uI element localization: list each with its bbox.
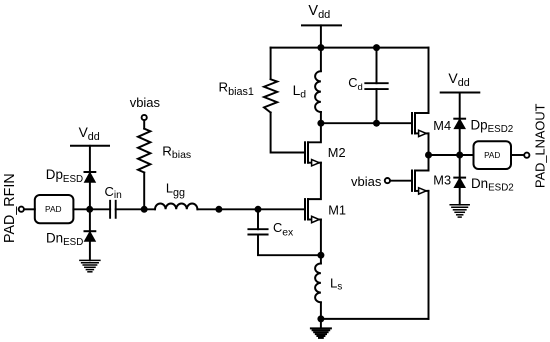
wire vbias to Rbias [143, 120, 145, 128]
power Vdd bar left [71, 145, 109, 147]
node D junction (Cex tap) [255, 206, 262, 213]
wire M4 drain to top rail [428, 48, 430, 113]
svg-text:DnESD2: DnESD2 [471, 176, 514, 193]
svg-text:Rbias: Rbias [162, 144, 191, 162]
node E junction [425, 152, 432, 159]
svg-text:Ld: Ld [293, 83, 307, 101]
inductor Ld [315, 71, 321, 112]
ground right [450, 205, 469, 217]
svg-text:Vdd: Vdd [448, 70, 469, 89]
node Ld bottom junction [317, 120, 324, 127]
svg-text:Cd: Cd [348, 75, 363, 93]
svg-text:vbias: vbias [351, 174, 382, 189]
svg-text:Rbias1: Rbias1 [219, 80, 254, 98]
wire M3 drain to node E [428, 155, 430, 171]
diode DpESD2 [454, 119, 465, 129]
wire Vdd to node A [89, 146, 91, 210]
ground left [80, 260, 100, 271]
capacitor C_in [110, 201, 116, 218]
wire M1 source down [320, 220, 322, 256]
svg-text:DnESD: DnESD [46, 231, 83, 249]
wire node D to Cex [257, 209, 259, 229]
node Cd top junction [373, 44, 380, 51]
wire M2 source to M1 drain [308, 163, 321, 199]
node Vdd junction [317, 44, 324, 51]
inductor Ls [315, 255, 321, 319]
diode DnESD2 [454, 178, 465, 188]
svg-text:Cin: Cin [105, 184, 122, 201]
resistor Rbias1 [264, 79, 277, 112]
wire Ls node to ground [320, 319, 322, 328]
diode DnESD [85, 231, 96, 241]
svg-text:DpESD: DpESD [46, 167, 83, 185]
node M1 source junction [317, 252, 324, 259]
node F junction [456, 152, 463, 159]
wire bottom rail [321, 318, 429, 320]
svg-text:DpESD2: DpESD2 [471, 118, 514, 136]
wire rail to Rbias1 [270, 48, 272, 79]
node PAD_LNAOUT terminal [524, 153, 529, 158]
capacitor Cex [248, 229, 267, 234]
node Cd bottom junction [373, 120, 380, 127]
wire node A to DnESD [89, 209, 91, 260]
power Vdd bar top [302, 24, 341, 26]
wire Vdd right to node F [459, 93, 461, 156]
node PAD_RFIN terminal [19, 207, 24, 212]
wire rail junction to M2 drain [308, 123, 321, 142]
wire M3 source down [428, 191, 430, 319]
wire Vdd top to rail [320, 25, 322, 47]
svg-text:M2: M2 [328, 145, 346, 160]
svg-text:PAD: PAD [45, 204, 62, 214]
wire node F to DnESD2 and ground [459, 155, 461, 205]
wire mid rail (to M4 gate) [321, 122, 412, 124]
svg-text:M3: M3 [433, 172, 451, 187]
svg-text:M4: M4 [433, 118, 451, 133]
wire top rail [271, 47, 429, 49]
svg-text:M1: M1 [328, 202, 346, 217]
svg-text:Vdd: Vdd [308, 3, 330, 21]
diode DpESD [85, 172, 96, 182]
transistor M4 [412, 113, 429, 137]
inductor Lgg [155, 204, 197, 210]
svg-text:PAD: PAD [484, 151, 500, 160]
PAD box RFIN [35, 195, 74, 223]
wire M4 source to node E [428, 133, 430, 155]
PAD box LNAOUT [474, 141, 512, 169]
node vbias terminal right [385, 178, 390, 183]
wire Ld to mid rail [320, 112, 322, 123]
svg-text:PAD_RFIN: PAD_RFIN [2, 173, 18, 243]
wire Lgg to M1 gate [197, 208, 305, 210]
svg-text:Cex: Cex [273, 220, 294, 238]
wire Cin to Lgg [116, 208, 155, 210]
node Ls bottom junction [317, 315, 324, 322]
wire vbias to M3 gate [390, 180, 412, 182]
ground center [311, 328, 331, 338]
power Vdd bar right [441, 92, 480, 94]
transistor M1 [305, 199, 321, 223]
wire Cd top lead [376, 48, 378, 84]
capacitor Cd [365, 83, 387, 89]
svg-text:PAD_LNAOUT: PAD_LNAOUT [532, 103, 547, 188]
resistor Rbias [138, 129, 150, 173]
wire Cd bottom lead [376, 89, 378, 123]
svg-text:Lgg: Lgg [166, 180, 185, 199]
wire Vdd junction to Ld [320, 48, 322, 72]
node vbias terminal left [142, 115, 147, 120]
wire terminal to PAD box [24, 208, 35, 210]
node B junction (Rbias bottom) [141, 206, 148, 213]
svg-text:Vdd: Vdd [79, 125, 100, 143]
svg-text:vbias: vbias [130, 95, 161, 110]
wire PAD box to node A [73, 208, 110, 210]
transistor M3 [412, 171, 429, 195]
wire Rbias1 to M2 gate [271, 113, 305, 153]
wire node E to PAD box [429, 154, 474, 156]
wire Cex to M1 source node [258, 235, 321, 256]
node C junction [215, 206, 222, 213]
node A junction [86, 206, 93, 213]
wire PAD box to output terminal [511, 154, 524, 156]
wire Rbias to node B [143, 173, 145, 210]
svg-text:Ls: Ls [330, 275, 342, 292]
transistor M2 [305, 142, 321, 166]
